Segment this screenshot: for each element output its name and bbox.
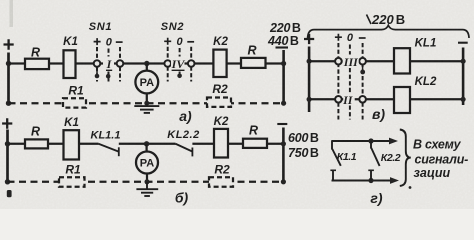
relay coil KL2 [394,87,410,113]
leader tick to 220V label [367,15,372,25]
junction (right bus / row III wire) [461,59,466,64]
resistor R1 (circuit a, dashed option) [63,98,86,107]
SN2 plus mark [164,38,171,45]
junction (right bus / dashed wire b) [281,179,286,184]
faint fold smudge (top-left) [10,0,14,27]
resistor R1 (circuit b, dashed option) [59,177,85,187]
SN1 moving-contact dot (0) [107,72,109,76]
node + (positive bus terminal, circuit a) [4,39,14,49]
resistor R (circuit a, left) [25,59,49,69]
plus mark [335,34,342,41]
resistor R (circuit b, left) [25,139,48,148]
ink blot artifact (bottom-left) [7,190,12,197]
resistor R2 (circuit b, dashed option) [209,177,233,187]
position label II [343,94,355,106]
right bus wire (circuit v) [462,48,465,106]
relay coil K2 (circuit b) [214,129,228,158]
wire (right part, circuit b) [192,143,283,145]
junction (left bus / main wire b) [5,141,10,146]
position label IV [171,58,185,69]
meter PA (circuit a) [135,64,158,104]
position label III [343,56,359,68]
wire row III right [410,60,463,62]
relay coil K1 (circuit b) [64,130,80,159]
period after brace [409,186,412,189]
junction (bottom line / K2.2) [368,178,373,183]
right bus wire (circuit a) [282,50,285,103]
contact KL1.1 (NO contact) [91,130,121,157]
right bus wire (circuit b) [282,128,285,182]
junction (PA branch / dashed wire a) [144,101,149,106]
junction (wire b / meter PA branch) [144,141,149,146]
switch SN2 [161,21,195,82]
brace } (to signalling circuit) [400,130,411,186]
SN2 contact circle (+) [164,60,171,67]
left bus wire (circuit a) [7,53,10,105]
wire row III [309,60,394,62]
SN1 plus mark [94,38,101,45]
node + (positive bus terminal, circuit b) [2,118,12,128]
resistor R2 (circuit a, dashed option) [207,98,231,107]
arrow (bottom line) [390,177,399,184]
contact K1.1 (NO contact) [330,141,356,182]
left bus wire (circuit b) [6,130,9,185]
junction (PA branch / dashed wire b) [145,179,150,184]
SN1 contact circle (+) [94,60,101,67]
junction (right bus / dashed wire a) [281,101,286,106]
junction (wire a / meter PA branch) [144,61,149,66]
node - (circuit v) [458,42,468,44]
wire (top line, circuit g) [332,140,391,142]
dashed lower wire (circuit b) [8,181,284,183]
contact circle row III (-) [359,58,366,65]
brace over circuit v [308,25,469,38]
resistor R (circuit a, right) [241,58,266,68]
relay coil K1 (circuit a) [64,50,76,78]
relay coil KL1 [394,48,410,73]
resistor R (circuit b, right) [243,139,267,148]
junction (right bus / row II wire) [461,97,466,102]
ground (circuit a) [134,103,159,113]
position lines (dashed) [338,43,362,120]
wire row II [309,98,394,100]
SN2 contact circle (-) [188,60,195,67]
wire row II right [410,98,463,100]
junction (left bus / row II wire) [307,97,312,102]
SN2 position lines (dashed) [168,47,192,82]
junction (left bus / main wire a) [6,61,11,66]
relay coil K2 (circuit a) [213,50,226,77]
contact circle row II (+) [335,96,342,103]
SN1 moving-contact dot (+) [96,67,98,74]
left bus wire (circuit v) [308,47,311,113]
node - (negative terminal, circuit b) [277,123,287,125]
junction (right bus / main wire a) [281,61,286,66]
wire (bottom line, circuit g) [332,180,392,182]
moving-contact dot (row III, -) [362,64,364,70]
position label I [103,58,114,69]
arrow (top line) [389,138,398,145]
node + (circuit v) [304,34,314,44]
dashed lower wire (circuit a) [9,102,284,104]
ground (circuit b) [136,182,158,196]
minus mark [359,37,366,39]
junction (left bus / dashed wire a) [6,101,11,106]
junction (right bus / main wire b) [281,141,286,146]
contact K2.2 (NO contact) [368,141,400,181]
meter PA (circuit b) [136,144,158,182]
SN2 minus mark [187,41,194,43]
junction (top line / K2.2) [368,138,373,143]
wire (main horizontal, circuit b, left part) [8,143,99,145]
junction (left bus / dashed wire b) [5,179,10,184]
contact circle row III (+) [335,58,342,65]
contact circle row II (-) [359,96,366,103]
junction (left bus / row III wire) [307,59,312,64]
SN1 minus mark [116,41,123,43]
switch (circuit v) [335,32,366,120]
SN1 contact circle (-) [117,60,124,67]
contact KL2.2 (NO contact) [167,129,199,157]
wire (main horizontal, circuit a) [9,62,284,64]
switch SN1 [89,21,124,82]
node - (negative terminal, circuit a) [276,46,289,48]
SN1 position lines (dashed) [97,47,120,82]
SN2 moving-contact dot (0) [177,74,182,79]
wire (between contacts, circuit b) [119,143,176,145]
